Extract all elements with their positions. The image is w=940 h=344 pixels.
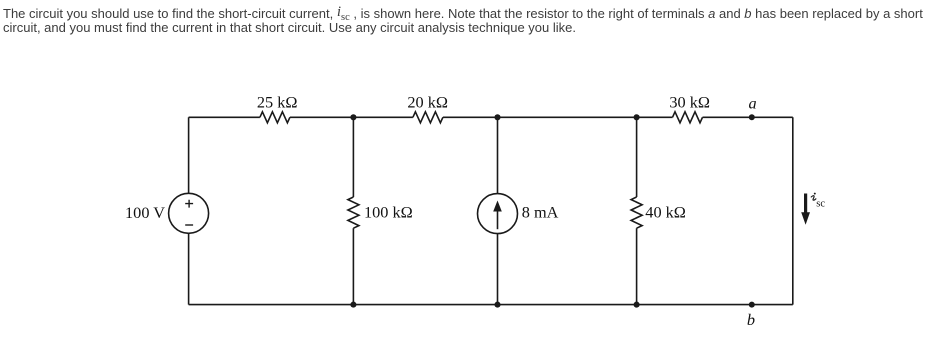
wire right side — [792, 117, 794, 304]
node dot top 2 — [494, 114, 500, 120]
svg-text:8 mA: 8 mA — [522, 202, 559, 221]
wire top: 25k to 20k — [290, 116, 413, 118]
node dot bottom 3 — [634, 302, 640, 308]
node dot top 3 — [634, 114, 640, 120]
voltage source V1 circle — [169, 193, 209, 233]
wire top: left corner to 25k resistor — [189, 116, 260, 118]
svg-text:b: b — [747, 310, 755, 329]
resistor R 40k — [631, 197, 642, 228]
node dot bottom 2 — [494, 302, 500, 308]
label i sc — [811, 196, 816, 201]
resistor R 20k — [413, 112, 443, 123]
wire current source top — [497, 117, 499, 193]
wire top: 20k to 30k — [443, 116, 673, 118]
svg-text:20 kΩ: 20 kΩ — [407, 92, 448, 111]
isc arrow — [801, 194, 810, 225]
resistor R 25k — [260, 112, 290, 123]
node dot top 1 — [350, 114, 356, 120]
resistor R 100k — [348, 197, 359, 228]
current source arrow shaft — [497, 211, 499, 230]
svg-text:sc: sc — [816, 199, 825, 210]
wire left bottom — [188, 233, 190, 304]
current source arrowhead — [493, 201, 502, 212]
terminal a dot — [749, 114, 755, 120]
wire bottom — [189, 304, 793, 306]
terminal b dot — [749, 302, 755, 308]
wire 100k bottom — [352, 228, 354, 304]
voltage source plus sign — [185, 200, 193, 208]
wire current source bottom — [497, 234, 499, 305]
svg-text:40 kΩ: 40 kΩ — [645, 203, 686, 222]
svg-text:100 V: 100 V — [125, 203, 165, 222]
wire 40k bottom — [636, 228, 638, 304]
wire top: 30k to right corner — [703, 116, 793, 118]
current source I1 circle — [478, 194, 518, 234]
resistor R 30k — [673, 112, 703, 123]
svg-text:100 kΩ: 100 kΩ — [364, 203, 413, 222]
voltage source minus sign — [185, 224, 193, 226]
svg-text:a: a — [749, 94, 757, 113]
node dot bottom 1 — [350, 302, 356, 308]
wire 40k top — [636, 117, 638, 197]
svg-text:30 kΩ: 30 kΩ — [669, 92, 710, 111]
wire left top: corner down to source — [188, 117, 190, 193]
wire 100k top — [352, 117, 354, 197]
svg-text:25 kΩ: 25 kΩ — [257, 92, 298, 111]
